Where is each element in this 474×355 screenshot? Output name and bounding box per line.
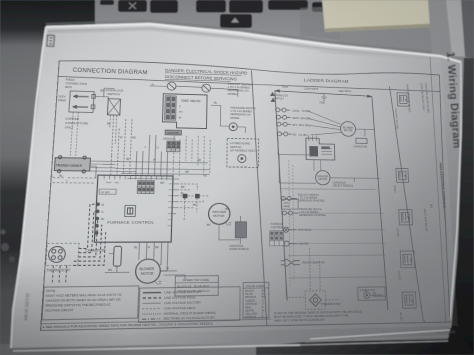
- thermostat TH1: [48, 247, 66, 263]
- ignitor (ladder): [283, 241, 297, 246]
- row A label: [298, 195, 326, 203]
- wire bundle vertical to furnace control: [111, 119, 169, 176]
- fan module column divider: [390, 86, 426, 323]
- capacitor C1: [113, 246, 121, 266]
- furnace control terminals R C W Y G: [95, 203, 100, 235]
- IF-ANY wire replacement note: [274, 309, 363, 322]
- crease second page edge top right: [320, 52, 440, 61]
- furnace control connector J1: [137, 181, 154, 194]
- legend text: [164, 290, 217, 321]
- furnace control board: [94, 175, 173, 242]
- blower ground: [155, 281, 162, 284]
- dark bottom-right below paper: [250, 328, 474, 355]
- copper conductors only label: [65, 117, 89, 130]
- transformer (ladder) T1: [281, 259, 300, 266]
- wire from rollout to right: [224, 89, 238, 97]
- wire from thermostat box down: [52, 265, 66, 282]
- transformer T1: [54, 156, 90, 173]
- wire BL to pressure switch: [210, 105, 245, 132]
- wire inducer down to divider: [219, 224, 240, 240]
- ladder 115V tap box: [281, 199, 298, 209]
- hot-neutral supply line: [274, 89, 372, 98]
- thermostat dashed enclosure: [46, 243, 79, 265]
- rollout switch label: [228, 82, 252, 96]
- combustion pressure switch label: [360, 290, 386, 299]
- wire BK BL from field box down: [70, 112, 78, 156]
- ladder 115V label: [283, 202, 290, 208]
- svg-text:1. Wiring Diagram: 1. Wiring Diagram: [444, 51, 463, 148]
- field connection box: [69, 91, 96, 113]
- furnace top tiny labels: [106, 181, 120, 184]
- furnace control fuse icon: [125, 205, 136, 216]
- note text: [45, 288, 123, 313]
- wire bus to furnace top: [89, 134, 192, 176]
- ladder furnace control label: [271, 223, 284, 229]
- 24 volt terminal labels: [179, 105, 183, 119]
- danger warning text: [165, 68, 247, 82]
- paper left edge highlight: [11, 27, 46, 348]
- legend line samples: [142, 293, 161, 320]
- contacts row 3: [276, 122, 291, 126]
- ladder long wires: [279, 160, 387, 288]
- blower motor label: [139, 267, 155, 276]
- inner right border line: [430, 57, 446, 322]
- sensor connector: [167, 141, 181, 152]
- limit switch LS2: [202, 84, 211, 92]
- wire rail to thermostat: [286, 247, 340, 300]
- blower motor M1: [135, 259, 160, 283]
- contacts row 4: [277, 132, 292, 136]
- outer frame border: [41, 59, 455, 331]
- pressure switch PS1: [229, 123, 237, 131]
- combustion pressure switch box: [358, 287, 386, 301]
- dark right band beyond paper: [436, 58, 474, 355]
- inducer ground: [225, 223, 231, 226]
- wire blower to speed tap: [160, 271, 185, 280]
- wire BL below interlock: [108, 115, 116, 156]
- gas valve terminal strip: [165, 96, 177, 121]
- fan on dip switch icon 1: [397, 93, 409, 107]
- second sheet edges bottom: [13, 345, 300, 351]
- dip switch icon 4: [400, 251, 415, 268]
- ignitor box: [165, 130, 181, 135]
- wire labels BK BL: [180, 185, 197, 207]
- furnace control right pins: [172, 184, 177, 214]
- thermostat (ladder) dashed box: [305, 291, 325, 310]
- gas valve (ladder) coil: [283, 227, 297, 232]
- wire left rail to control block: [278, 138, 316, 184]
- splice terminals: [183, 194, 188, 198]
- inducer motor M2: [208, 203, 230, 224]
- wire between limit switches: [150, 86, 225, 89]
- svg-text:440 01 1113 02: 440 01 1113 02: [23, 292, 30, 321]
- interlock switch label: [105, 88, 123, 96]
- wire labels L BL Y: [51, 174, 68, 183]
- limit contacts row A: [280, 196, 297, 200]
- dip switch icon 5: [402, 292, 416, 308]
- supply labels HOT 115V-60HZ NEUTRAL: [282, 85, 352, 93]
- furnace 24V terminal strip: [99, 189, 116, 194]
- see manuals footnote: [40, 319, 270, 324]
- wire blower to right rail: [356, 129, 375, 137]
- wire labels BL R BK: [134, 245, 160, 249]
- inducer capacitor label: [332, 182, 353, 188]
- furnace control pin header top: [104, 175, 167, 180]
- field connection box label: [65, 78, 87, 90]
- row B label: [299, 209, 327, 217]
- blower motor (ladder) label: [343, 127, 353, 133]
- inducer motor (ladder) M2: [315, 171, 330, 185]
- inducer motor label: [212, 210, 226, 218]
- pressure switch label: [230, 106, 256, 120]
- inline capacitor C2: [235, 216, 246, 244]
- paper top edge highlight: [46, 24, 461, 62]
- gray bottom strip below paper: [0, 344, 256, 355]
- svg-text:1012033A-E: 1012033A-E: [436, 330, 456, 335]
- E mark on page corner: [47, 35, 55, 46]
- interlock switch SW1: [107, 99, 120, 115]
- gas valve box: [162, 94, 207, 129]
- thermostat (ladder) TH1: [309, 294, 321, 307]
- wire control block to inducer: [314, 160, 321, 171]
- wire inducer to right rail: [330, 178, 380, 182]
- wires furnace to inducer: [176, 184, 209, 208]
- wires fan speeds to blower motor: [308, 111, 341, 136]
- speed tap code text: [177, 278, 210, 294]
- dip switch icon 3: [399, 210, 413, 225]
- dip switch icon 2: [396, 168, 409, 182]
- ground symbol GND: [321, 93, 327, 100]
- sticky note: [322, 0, 433, 32]
- note box: [42, 286, 139, 320]
- inline capacitor label: [229, 245, 249, 251]
- wire W long run: [90, 161, 208, 163]
- wire labels W BK BL center: [151, 158, 230, 227]
- LP pressure switch PS2: [238, 154, 246, 162]
- section divider: [251, 71, 267, 327]
- 115V 60HZ label: [58, 94, 67, 102]
- color code text: [245, 284, 266, 319]
- keyboard deck: [95, 0, 340, 48]
- LP pressure switch box: [227, 138, 259, 167]
- wires from thermostat to furnace terminals: [73, 204, 107, 265]
- legend box: [139, 287, 241, 323]
- ladder right rail: [372, 96, 388, 310]
- run capacitor (ladder) C1: [356, 138, 367, 143]
- control block pin strip: [321, 146, 330, 149]
- wire bus horizontal runs: [115, 134, 211, 179]
- speed tap code box: [175, 276, 219, 296]
- wire rows to right rail: [296, 199, 386, 244]
- furnace right edge pin labels: [167, 184, 172, 226]
- inducer motor (ladder) label: [318, 176, 329, 181]
- laptop left surface: [0, 0, 98, 355]
- contacts row 2: [275, 115, 290, 119]
- blower motor (ladder) M1: [340, 121, 355, 136]
- wire run left of furnace: [52, 166, 96, 183]
- ladder left rail: [275, 91, 287, 301]
- terminal labels: [100, 202, 105, 235]
- control block (ladder furnace control): [306, 135, 335, 160]
- keyboard keys: [100, 0, 330, 28]
- wire splice verticals: [184, 198, 197, 220]
- control block connector: [309, 146, 318, 156]
- interlock switch (ladder): [273, 93, 288, 100]
- blower wires down from furnace: [138, 242, 168, 271]
- wire BK from field box to interlock: [95, 88, 114, 99]
- cool delay rotated text: [420, 83, 431, 113]
- wire labels on bundle: [119, 135, 159, 149]
- ladder furnace control connector: [270, 231, 284, 246]
- LP pressure switch label: [230, 141, 257, 153]
- limit switch LS1: [167, 82, 176, 90]
- header band rule bottom: [58, 76, 441, 91]
- right laptop strips: [428, 0, 453, 56]
- door switch contacts row 1: [275, 108, 290, 112]
- limit contacts row B: [281, 211, 298, 215]
- wire capacitor to blower: [105, 254, 131, 273]
- color code box: [243, 282, 269, 318]
